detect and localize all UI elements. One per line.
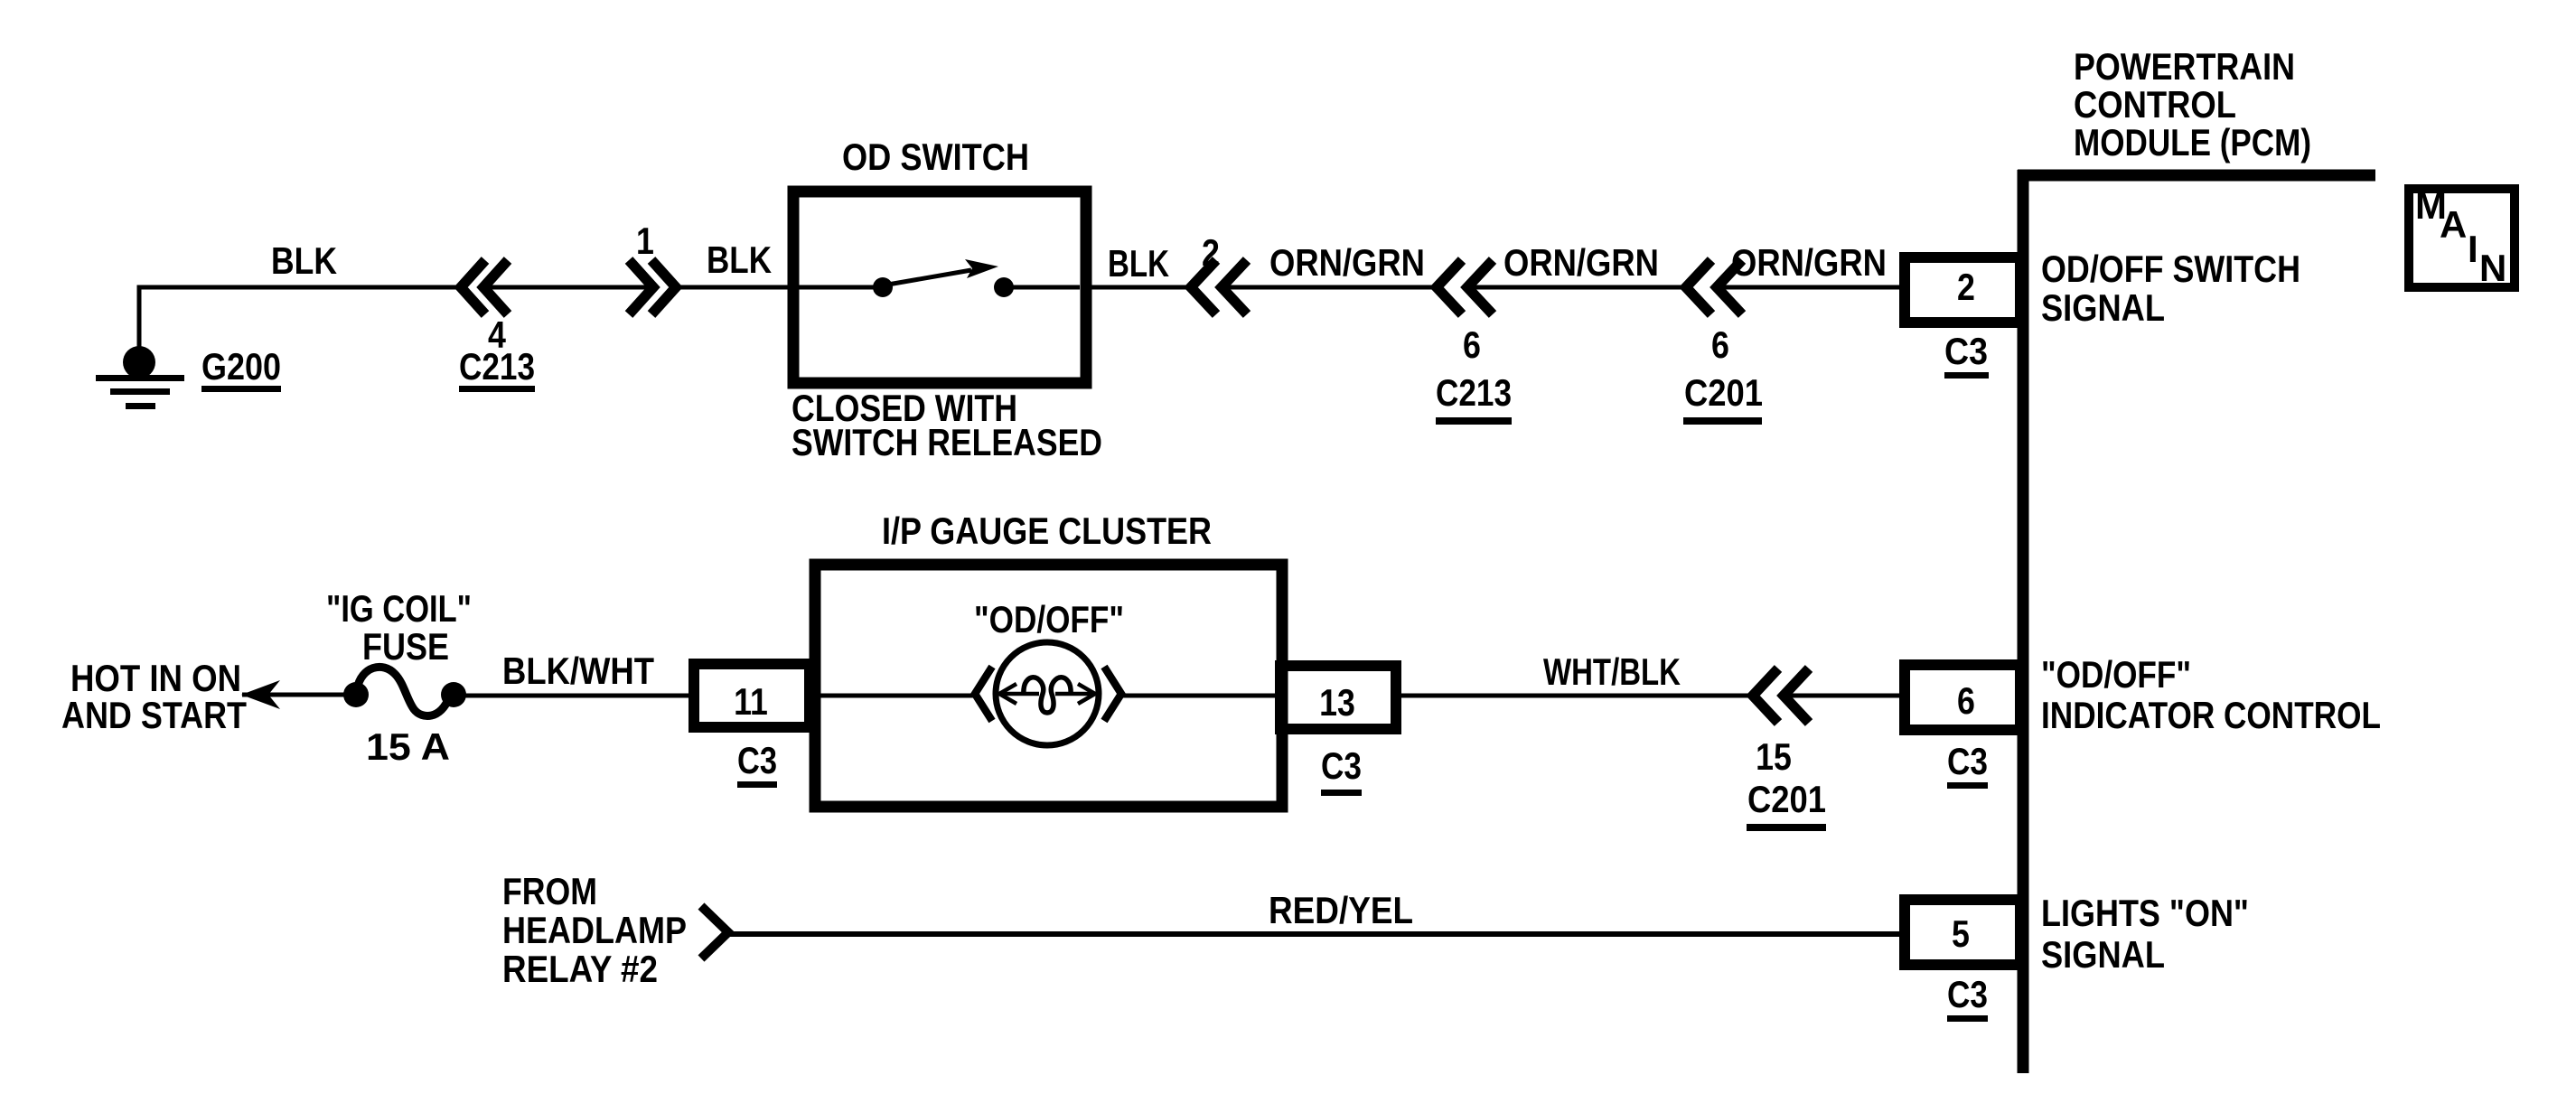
PCM pin box 6 [1905, 665, 2020, 730]
wire ORN/GRN to PCM pin 2 [1717, 285, 1905, 290]
svg-text:SWITCH RELEASED: SWITCH RELEASED [792, 421, 1102, 463]
off-page connector from headlamp relay [701, 906, 728, 958]
MAIN letters [2415, 184, 2506, 289]
svg-text:SIGNAL: SIGNAL [2041, 286, 2165, 329]
wire inside cluster to pin 13 [1121, 694, 1280, 698]
svg-text:HEADLAMP: HEADLAMP [502, 909, 687, 951]
wire BLK from OD switch to connector [1086, 285, 1191, 290]
svg-text:C213: C213 [459, 345, 535, 388]
svg-text:"OD/OFF": "OD/OFF" [2041, 653, 2191, 696]
svg-text:BLK/WHT: BLK/WHT [502, 650, 654, 692]
svg-text:N: N [2479, 247, 2506, 289]
svg-text:RELAY #2: RELAY #2 [502, 948, 658, 990]
PCM pin box 5 [1905, 900, 2020, 965]
svg-text:RED/YEL: RED/YEL [1269, 889, 1413, 931]
fuse "IG COIL" 15 A [343, 667, 466, 715]
label G200 [201, 345, 281, 392]
svg-text:WHT/BLK: WHT/BLK [1543, 650, 1681, 693]
svg-text:15 A: 15 A [366, 725, 450, 768]
wire BLK/WHT from fuse to cluster pin 11 [454, 694, 694, 698]
PCM connector body line [2018, 170, 2029, 1073]
label C3 [737, 739, 777, 788]
svg-text:6: 6 [1711, 323, 1729, 366]
wire between C213 halves [483, 285, 653, 290]
wire BLK from C213 to OD switch [676, 285, 800, 290]
svg-text:CONTROL: CONTROL [2074, 83, 2236, 126]
svg-text:G200: G200 [201, 345, 281, 388]
svg-text:BLK: BLK [1108, 242, 1169, 285]
svg-text:C201: C201 [1747, 778, 1826, 820]
label C3 [1944, 330, 1989, 379]
svg-text:5: 5 [1952, 912, 1970, 955]
label OD/OFF SWITCH SIGNAL [2041, 248, 2300, 329]
wire into bulb [820, 694, 975, 698]
ground G200 [96, 346, 184, 409]
MAIN page tab box [2409, 189, 2515, 287]
connector C201 (cavity 15) [1753, 668, 1809, 723]
wire RED/YEL to PCM pin 5 [728, 931, 1905, 937]
svg-text:13: 13 [1319, 681, 1355, 724]
svg-text:FUSE: FUSE [362, 625, 449, 668]
svg-text:11: 11 [734, 680, 768, 723]
svg-text:C3: C3 [1321, 744, 1362, 787]
wire WHT/BLK from pin 13 to C201 [1401, 694, 1753, 698]
label FROM HEADLAMP RELAY #2 [502, 870, 687, 990]
svg-text:INDICATOR CONTROL: INDICATOR CONTROL [2041, 694, 2381, 736]
svg-text:"OD/OFF": "OD/OFF" [974, 598, 1124, 640]
svg-text:ORN/GRN: ORN/GRN [1503, 241, 1659, 284]
cluster pin box 11 [694, 664, 810, 727]
svg-text:1: 1 [636, 220, 654, 262]
wire ORN/GRN to C213 [1222, 285, 1437, 290]
label LIGHTS "ON" SIGNAL [2041, 892, 2249, 976]
wire from arrow to fuse [242, 693, 356, 697]
svg-text:ORN/GRN: ORN/GRN [1269, 241, 1425, 284]
wire BLK from ground G200 to connector C213 [139, 287, 463, 362]
OD switch S1 box [793, 192, 1086, 383]
svg-text:SIGNAL: SIGNAL [2041, 933, 2165, 976]
svg-text:ORN/GRN: ORN/GRN [1731, 241, 1887, 284]
label C201 [1683, 371, 1763, 425]
label C213 [459, 345, 535, 392]
connector C201 (cavity 6) [1686, 260, 1742, 314]
OD/OFF indicator bulb [975, 642, 1121, 745]
PCM pin box 2 [1905, 257, 2020, 322]
svg-text:"IG COIL": "IG COIL" [326, 587, 472, 630]
svg-text:C213: C213 [1436, 371, 1512, 414]
wire WHT/BLK to PCM pin 6 [1784, 694, 1905, 698]
label C201 [1747, 778, 1826, 831]
svg-text:OD SWITCH: OD SWITCH [842, 136, 1029, 178]
arrow to hot feed [241, 680, 280, 709]
svg-text:OD/OFF SWITCH: OD/OFF SWITCH [2041, 248, 2300, 290]
svg-text:C3: C3 [1947, 973, 1988, 1015]
svg-text:LIGHTS "ON": LIGHTS "ON" [2041, 892, 2249, 934]
svg-text:C3: C3 [737, 739, 777, 781]
label "OD/OFF" INDICATOR CONTROL [2041, 653, 2381, 736]
svg-text:MODULE (PCM): MODULE (PCM) [2074, 121, 2311, 164]
svg-text:C3: C3 [1947, 740, 1988, 782]
svg-text:2: 2 [1957, 266, 1975, 308]
label HOT IN ON AND START [61, 657, 247, 736]
cluster pin box 13 [1280, 666, 1396, 729]
svg-text:BLK: BLK [707, 238, 772, 281]
svg-text:15: 15 [1756, 735, 1792, 778]
label "IG COIL" FUSE [326, 587, 472, 668]
connector C213 male half (cavity 1) [629, 260, 676, 314]
svg-text:6: 6 [1957, 679, 1975, 722]
I/P gauge cluster box [815, 565, 1282, 807]
PCM top boundary line [2018, 170, 2375, 182]
OD switch connector (cavity 2) [1191, 260, 1247, 314]
OD switch contacts and actuator arrow [800, 259, 1080, 297]
label C3 [1321, 744, 1362, 796]
svg-text:BLK: BLK [271, 239, 337, 282]
svg-text:HOT IN ON: HOT IN ON [70, 657, 241, 699]
label C3 [1947, 740, 1988, 789]
svg-text:C3: C3 [1944, 330, 1988, 372]
connector C213 (cavity 6) [1437, 260, 1493, 314]
label POWERTRAIN CONTROL MODULE (PCM) [2074, 45, 2311, 164]
label CLOSED WITH SWITCH RELEASED [792, 387, 1102, 463]
svg-text:6: 6 [1463, 323, 1481, 366]
svg-text:POWERTRAIN: POWERTRAIN [2074, 45, 2295, 88]
label C3 [1947, 973, 1988, 1022]
svg-text:I: I [2468, 228, 2478, 270]
label C213 [1436, 371, 1512, 425]
svg-text:C201: C201 [1684, 371, 1763, 414]
svg-text:FROM: FROM [502, 870, 597, 912]
svg-text:I/P GAUGE CLUSTER: I/P GAUGE CLUSTER [882, 509, 1212, 552]
connector C213 female half (cavity 4) [461, 260, 508, 314]
svg-text:A: A [2440, 203, 2467, 246]
svg-text:AND START: AND START [61, 694, 247, 736]
wire ORN/GRN to C201 [1467, 285, 1686, 290]
